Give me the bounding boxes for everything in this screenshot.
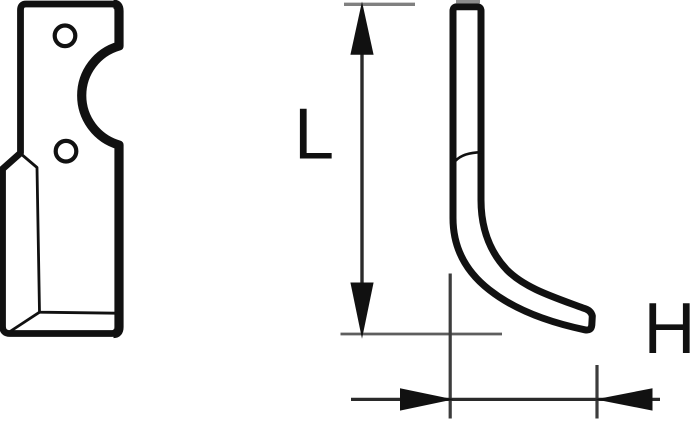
side view top gray cap	[456, 0, 480, 3]
hole lower	[56, 141, 77, 162]
blade front bevel miter line	[9, 312, 40, 332]
top reference line	[344, 3, 415, 6]
blade front right edge thick overlay	[82, 4, 119, 333]
blade front bevel grind line	[21, 154, 117, 314]
dimension line H	[351, 398, 660, 401]
arrowhead L top	[350, 2, 373, 55]
extension line right (H)	[595, 365, 598, 419]
side view transition line	[455, 152, 481, 161]
arrowhead H left	[400, 388, 454, 410]
extension line left (H)	[449, 274, 452, 419]
arrowhead L bottom	[350, 283, 373, 339]
bottom reference line	[341, 333, 503, 336]
dimension line L	[360, 52, 363, 286]
blade side view outline	[453, 7, 592, 330]
hole upper	[55, 26, 76, 47]
svg-text:H: H	[644, 289, 696, 369]
svg-text:L: L	[294, 95, 334, 175]
arrowhead H right	[596, 388, 653, 410]
blade front view outline	[3, 4, 120, 334]
